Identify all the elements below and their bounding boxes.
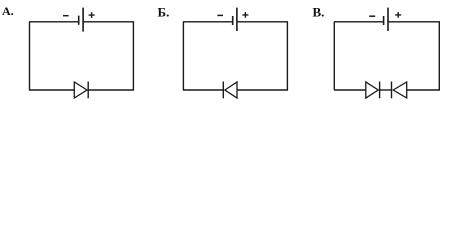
plus label circuit А (89, 12, 95, 18)
wire bottom-left segment circuit Б (183, 89, 223, 91)
svg-text:В.: В. (313, 4, 325, 19)
diode VD2 circuit Б (cathode left, pointing left) triangle (225, 82, 237, 98)
wire top-right segment circuit В (388, 21, 440, 23)
minus label circuit Б (217, 14, 223, 16)
plus label circuit Б (242, 12, 248, 18)
wire top-left segment circuit Б (183, 21, 233, 23)
svg-text:А.: А. (2, 4, 14, 18)
wire bottom-left segment circuit А (29, 89, 74, 91)
diode VD1 circuit А cathode bar (87, 82, 89, 99)
diode VD4 circuit В (cathode left, pointing left) triangle (393, 82, 407, 98)
wire bottom-right segment circuit Б (237, 89, 288, 91)
wire right side circuit А (132, 22, 134, 90)
svg-text:Б.: Б. (158, 4, 170, 19)
wire left side circuit А (29, 22, 31, 90)
minus label circuit А (63, 15, 69, 17)
diode VD3 circuit В (anode left, pointing right) triangle (366, 82, 378, 98)
wire bottom-right segment circuit В (407, 89, 440, 91)
battery cell circuit В : positive long plate (387, 8, 389, 31)
wire bottom-left segment circuit В (334, 89, 366, 91)
diode VD4 circuit В cathode bar (391, 82, 393, 99)
battery cell circuit В : negative short plate (383, 16, 385, 25)
diode VD2 circuit Б cathode bar (222, 82, 224, 99)
wire right side circuit В (438, 22, 440, 90)
diode VD3 circuit В cathode bar (379, 82, 381, 99)
wire top-left segment circuit В (334, 21, 384, 23)
battery cell circuit Б : positive long plate (236, 8, 238, 31)
diode VD1 circuit А (anode left, pointing right) triangle (74, 82, 87, 98)
battery cell circuit Б : negative short plate (232, 16, 234, 25)
minus label circuit В (369, 15, 375, 17)
battery cell circuit А : negative short plate (78, 16, 80, 25)
wire middle segment between diodes circuit В (380, 89, 392, 91)
wire top-right segment circuit Б (237, 21, 288, 23)
battery cell circuit А : positive long plate (82, 8, 84, 32)
wire left side circuit В (333, 22, 335, 90)
plus label circuit В (395, 12, 401, 18)
wire top-right segment circuit А (83, 21, 134, 23)
wire left side circuit Б (182, 22, 184, 90)
wire top-left segment circuit А (29, 21, 79, 23)
wire bottom-right segment circuit А (88, 89, 134, 91)
wire right side circuit Б (286, 22, 288, 90)
